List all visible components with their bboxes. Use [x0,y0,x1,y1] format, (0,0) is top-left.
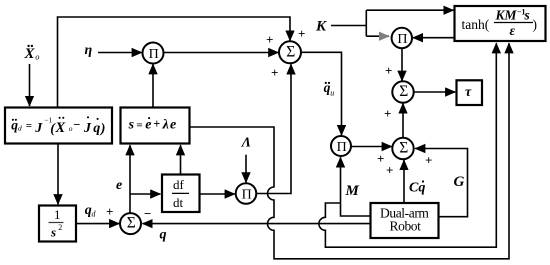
svg-text:): ) [533,17,538,32]
wire eta arrow into PI1 [98,52,142,54]
wire K lower branch gray arrow into PI2 [366,35,389,37]
wire SUM1 output right, down into PI3 [301,52,342,135]
op SUM3 (error) [120,213,141,234]
box df/dt [162,175,200,213]
wire Lambda arrow into PI-lambda [245,155,247,183]
svg-text:Robot: Robot [390,219,422,234]
op SUM1 (q_u_ddot) [279,41,301,63]
wire df/dt top up into s-box bottom [180,145,182,174]
box 1/s^2 [39,206,76,242]
label Xo_ddot input [24,45,40,63]
box J: q_d_ddot = J^-1(Xo_ddot - J_dot q_dot) [5,108,112,144]
svg-text:X: X [24,46,36,62]
wire Cq_dot from robot top into SUM4 [403,160,405,202]
svg-text:df: df [173,177,185,192]
svg-text:+: + [377,151,384,166]
svg-text:+: + [385,63,392,78]
wire PI3 output into SUM4 [351,146,392,148]
svg-text:KM: KM [495,8,518,23]
svg-text:e: e [116,178,122,193]
op PI3 (M * q_u_ddot) [331,136,351,156]
svg-text:+: + [153,117,160,131]
wire df/dt output into PI-lambda [200,193,235,195]
wire G from robot right edge up into SUM4 right [415,149,467,217]
op PI1 (eta * s) [143,43,164,64]
svg-text:Π: Π [397,32,407,47]
wire s-box top up into PI1 [152,64,154,107]
svg-text:=: = [26,120,32,132]
wire K line branch: right, up into tanh box, and down into PI2 (gray arrow) [331,10,454,36]
svg-text:+: + [106,204,113,219]
op PI-lambda [236,183,257,204]
svg-text:−: − [144,206,151,221]
svg-text:e: e [145,118,151,133]
op PI2 (K * tanh) [392,28,412,48]
svg-text:+: + [266,32,273,47]
op SUM2 [392,81,413,102]
svg-text:d: d [18,124,22,133]
svg-text:K: K [315,19,327,35]
svg-text:+: + [298,26,305,41]
op SUM4 [392,138,413,159]
svg-text:Σ: Σ [399,140,408,157]
label q_d [85,203,97,219]
svg-text:Σ: Σ [127,215,136,232]
svg-text:J: J [83,121,92,136]
svg-text:s: s [128,118,135,133]
wire PI-lambda output right then up into SUM1 bottom [256,64,291,193]
svg-text:u: u [330,89,334,98]
wire q feedback from robot left edge into SUM3 [143,223,371,225]
wire Xo_ddot arrow into J-box [29,64,31,106]
label Cq_dot [409,180,425,195]
svg-text:Cq: Cq [409,181,425,196]
svg-text:2: 2 [58,223,62,232]
wire 1/s2 output into SUM3 [76,223,119,225]
svg-text:η: η [85,43,93,58]
box s = e_dot + lambda e [121,108,190,144]
wire SUM4 output up into SUM2 [402,103,404,137]
svg-text:−: − [73,118,80,132]
svg-text:τ: τ [465,85,472,100]
svg-text:e: e [170,118,176,133]
svg-text:λ: λ [162,118,169,133]
wire e from SUM3 up into s-box [129,145,131,213]
svg-text:s: s [524,8,530,23]
box tanh(KM^-1 s / eps) [455,6,546,41]
svg-text:+: + [425,152,432,167]
svg-text:+: + [271,65,278,80]
wire PI2 output down into SUM2 [401,48,403,81]
svg-text:dt: dt [173,195,184,210]
svg-text:ε: ε [510,23,516,38]
svg-text:s: s [50,225,56,240]
wire PI1 output into SUM1 [164,52,279,54]
wire SUM2 output into tau box [414,91,456,93]
svg-text:1: 1 [54,207,61,222]
box Dual-arm Robot [371,203,439,238]
box tau [457,80,483,105]
svg-text:tanh(: tanh( [462,17,490,32]
svg-text:+: + [384,106,391,121]
wire e branch into df/dt box [130,193,160,195]
svg-text:=: = [136,120,142,132]
svg-text:+: + [386,163,393,178]
svg-text:X: X [55,120,66,136]
wire M from robot left edge up into PI3 [341,157,371,216]
wire tanh output left into PI2 [413,37,455,39]
wire J-box bottom down into 1/s2 box [57,144,59,205]
svg-text:Π: Π [242,188,252,203]
svg-text:G: G [454,174,465,190]
svg-text:q: q [93,121,100,136]
svg-text:o: o [35,52,39,62]
svg-text:q: q [160,228,167,243]
svg-text:Λ: Λ [241,136,251,151]
wire s signal: s-box right, down (hops PI-lambda output and q line), along bottom, up into tanh box [190,43,510,259]
svg-text:M: M [345,183,360,199]
wire q_d_ddot feedforward: J-box top up, across, down into SUM1 [58,17,291,107]
svg-text:Π: Π [149,47,159,62]
svg-text:Σ: Σ [286,43,295,60]
wire M branch down (hops q line) along bottom and up into tanh box [319,43,496,247]
svg-text:o: o [69,124,73,133]
svg-text:J: J [34,121,43,136]
svg-text:Π: Π [337,140,347,155]
label q_u_ddot [324,80,335,98]
svg-text:Σ: Σ [399,83,408,100]
